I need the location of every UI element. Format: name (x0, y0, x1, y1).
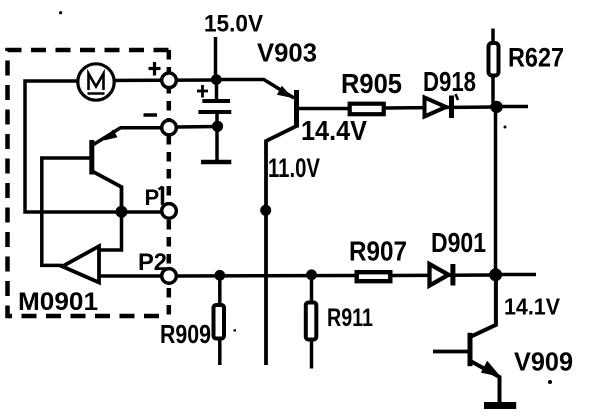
wire: R909 bottom stub (218, 341, 222, 366)
svg-text:11.0V: 11.0V (268, 153, 320, 183)
svg-text:14.1V: 14.1V (504, 294, 561, 320)
node: R911 tap junction (306, 269, 317, 280)
wire: - terminal left then down to inner transistor emitter (94, 128, 162, 145)
ground bar (484, 402, 516, 409)
wire: 15V supply drop (214, 37, 218, 80)
- label (144, 113, 158, 117)
resistor R627 (489, 43, 499, 76)
wire: stub right of junction (496, 105, 529, 109)
svg-text:V903: V903 (257, 38, 317, 68)
wire: P2 row across to R907 (176, 274, 355, 278)
svg-text:P: P (145, 185, 160, 210)
wire: - terminal to capacitor junction (176, 125, 218, 129)
IC module dashed box M0901 (8, 50, 169, 316)
D918 tick mark (456, 94, 459, 100)
inner transistor Q base wire to left (42, 158, 90, 265)
svg-text:R907: R907 (349, 236, 407, 267)
wire: motor to + terminal and on to cap junction (114, 78, 216, 82)
motor M (78, 64, 114, 100)
wire: R909 tap down (218, 275, 222, 305)
svg-text:D901: D901 (431, 227, 486, 258)
inner transistor Q emitter arrowhead (PNP, pointing into bar) (104, 130, 118, 141)
svg-text:D918: D918 (423, 66, 476, 97)
wire: bus down to V909 collector (472, 275, 496, 336)
svg-text:R627: R627 (508, 43, 564, 73)
resistor R909 (214, 305, 225, 339)
wire: R905 to D918 to junction (386, 107, 497, 108)
resistor R907 (357, 272, 391, 281)
transistor V903 collector down (266, 126, 297, 365)
transistor V909 bar (468, 333, 473, 366)
resistor R905 (350, 104, 384, 115)
terminal P1 (162, 204, 177, 219)
terminal P2 (162, 269, 177, 284)
svg-text:R909: R909 (160, 319, 211, 349)
svg-text:14.4V: 14.4V (301, 115, 367, 146)
capacitor C bottom stub (215, 114, 219, 161)
wire: triangle right edge to P2 terminal (99, 274, 162, 278)
wire: stub above R627 (491, 29, 495, 44)
inner transistor Q collector wire down to P1 junction (92, 171, 122, 212)
svg-text:R905: R905 (341, 68, 402, 99)
inner transistor Q base bar (89, 140, 94, 175)
svg-text:V909: V909 (514, 347, 573, 377)
transistor V903 base wire to R905 (298, 107, 349, 111)
diode D918 (425, 98, 447, 117)
terminal - (162, 120, 177, 135)
transistor V909 base wire (433, 350, 470, 354)
node: collector / P1 junction (116, 206, 128, 218)
wire: R911 tap down (310, 275, 314, 301)
transistor V909 emitter (470, 361, 500, 403)
node: cap / - wire junction (212, 121, 223, 132)
wire: + junction to V903 emitter (216, 80, 294, 99)
op-amp buffer triangle (62, 246, 99, 282)
node: D901 / bus junction (489, 268, 502, 281)
capacitor C top plate (202, 99, 230, 103)
svg-text:R911: R911 (327, 304, 373, 332)
transistor V903 bar (294, 90, 299, 128)
diode D901 (430, 264, 449, 286)
+ label (149, 62, 161, 76)
node: R909 tap junction (214, 270, 225, 281)
wire: R911 bottom stub (310, 342, 314, 369)
terminal + (162, 73, 177, 88)
svg-text:15.0V: 15.0V (204, 11, 263, 38)
capacitor C plus sign (197, 85, 208, 98)
capacitor ground bar (201, 160, 231, 165)
V909 emitter arrowhead (481, 361, 501, 377)
capacitor C top stub (215, 80, 219, 100)
capacitor C bottom plate (198, 110, 231, 114)
wire: junction down into op-amp input corner (101, 212, 122, 251)
svg-text:M0901: M0901 (18, 288, 98, 316)
resistor R911 (306, 303, 317, 340)
wire: vertical bus junction to D901 row (494, 107, 498, 275)
wire: stub right of D901 junction (496, 273, 537, 277)
wire: left rail from motor row down to P1 row (25, 81, 162, 212)
wire: R627 to junction (493, 78, 496, 108)
node: D918 / R627 junction (490, 101, 502, 113)
speck dots (59, 11, 62, 14)
wire: R907 to D901 to junction (392, 273, 496, 277)
V903 emitter arrowhead (277, 86, 293, 98)
node: supply / + wire junction (211, 74, 222, 85)
node: P1 / collector line junction (260, 205, 271, 216)
